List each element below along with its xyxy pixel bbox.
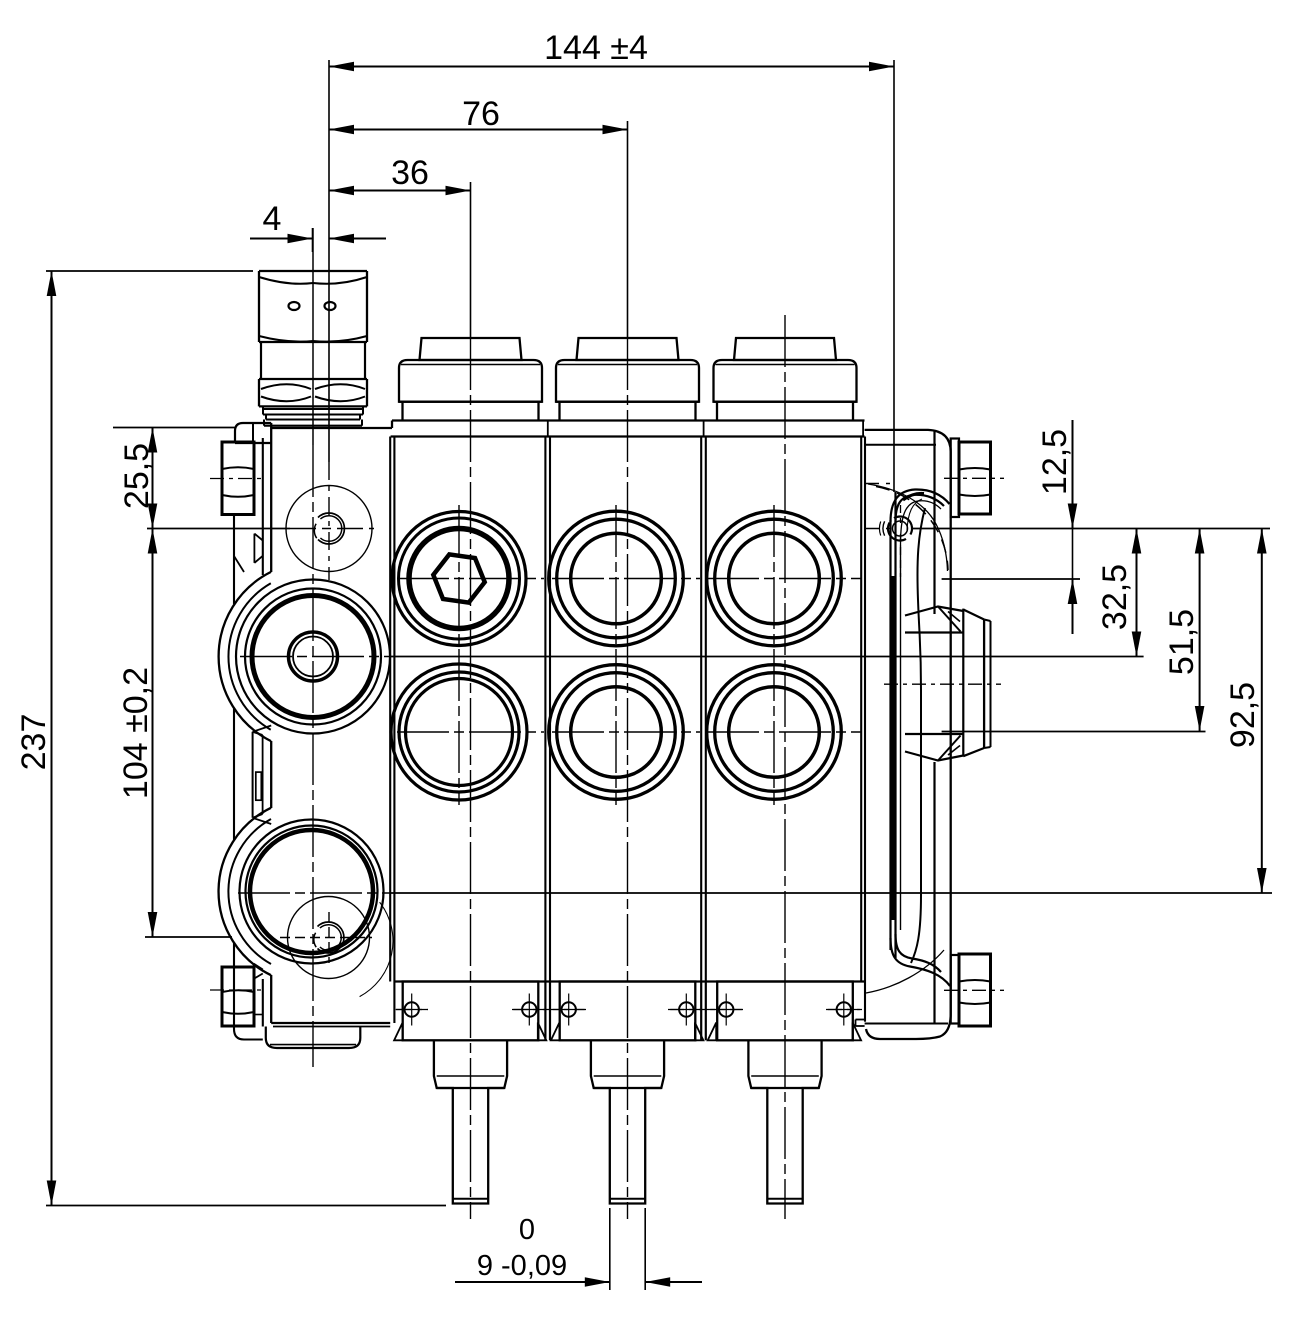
svg-text:25,5: 25,5 xyxy=(118,443,156,509)
svg-text:9 -0,09: 9 -0,09 xyxy=(477,1250,567,1282)
svg-text:104 ±0,2: 104 ±0,2 xyxy=(117,667,155,799)
svg-text:76: 76 xyxy=(462,95,500,133)
svg-text:36: 36 xyxy=(391,154,429,192)
svg-text:12,5: 12,5 xyxy=(1036,429,1074,495)
svg-text:144 ±4: 144 ±4 xyxy=(544,29,648,67)
svg-text:0: 0 xyxy=(519,1214,535,1246)
svg-text:32,5: 32,5 xyxy=(1096,564,1134,630)
svg-text:51,5: 51,5 xyxy=(1163,609,1201,675)
svg-text:4: 4 xyxy=(263,200,282,238)
svg-text:92,5: 92,5 xyxy=(1224,682,1262,748)
svg-text:237: 237 xyxy=(15,714,53,771)
